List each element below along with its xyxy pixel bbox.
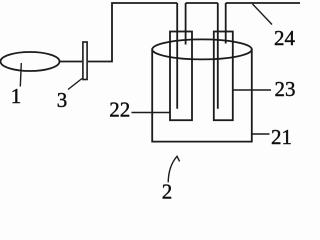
svg-text:3: 3	[57, 88, 68, 112]
svg-text:22: 22	[109, 98, 130, 122]
svg-text:1: 1	[11, 84, 22, 108]
svg-text:24: 24	[274, 26, 296, 50]
svg-text:23: 23	[275, 77, 296, 101]
svg-text:21: 21	[271, 125, 292, 149]
svg-text:2: 2	[162, 180, 173, 201]
